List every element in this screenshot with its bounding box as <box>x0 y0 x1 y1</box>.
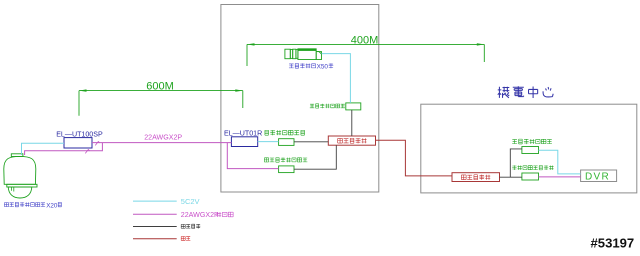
wire 5C2V indoor camera to top converter (cyan) <box>322 54 351 103</box>
converter box A2 影像光電轉換器 <box>522 147 539 154</box>
indoor box camera icon <box>285 49 322 60</box>
pair tick 1P on wire under EL-UT100SP <box>85 149 89 153</box>
fiber patch fiber box2 junction (dark) <box>500 149 522 177</box>
box EL-UT01R <box>231 137 257 147</box>
svg-text:DVR: DVR <box>585 172 610 183</box>
wire 22AWGX2P EL-UT100SP to EL-UT01R (magenta) <box>92 142 231 144</box>
label 戶外全罩式攝影機X20支 <box>4 202 61 209</box>
fiber cable between fiber boxes (red) <box>376 140 453 176</box>
wire 22AWGX2P dome camera control (magenta) <box>25 143 103 155</box>
wire 22AWGX2P branch to converter B1 (magenta) <box>227 143 278 169</box>
legend 光纖跳線 (dark) <box>133 226 177 228</box>
title text 機電中心 <box>498 87 510 98</box>
svg-text:EL—UT01R: EL—UT01R <box>224 129 262 137</box>
legend 光纜 (red) <box>133 238 177 240</box>
label 影像光電轉換器 (A2) <box>512 140 517 144</box>
pair tick 1P on wire at EL-UT100SP output <box>95 141 99 145</box>
fiber patch converter A1 to fiber box (dark) <box>294 141 328 143</box>
legend 5C2V (cyan) <box>133 200 177 202</box>
svg-text:22AWGX2P: 22AWGX2P <box>144 133 182 141</box>
dimension 400M right extension line <box>483 44 485 62</box>
wire 5C2V EL-UT01R to converter A1 (cyan) <box>258 141 279 143</box>
dimension 600M left extension line <box>78 91 80 116</box>
label 影像光電轉換器 (top) <box>310 104 314 108</box>
dimension 600M right extension line <box>242 91 244 108</box>
svg-text:X50: X50 <box>317 64 329 71</box>
label 室內攝影機X50支 <box>289 63 333 70</box>
wire converter B2 to DVR (magenta) <box>539 176 581 178</box>
dimension 400M left extension line <box>246 44 248 66</box>
converter box A1 影像光電轉換器 <box>279 139 294 146</box>
label 控制線光電轉換器 (B2) <box>512 165 516 170</box>
label 控制線光電轉換器 (B1) <box>264 158 268 162</box>
fiber termination box 光纖收容箱 (riser) <box>328 136 375 145</box>
dimension 400M line with arrows <box>247 43 484 45</box>
fiber termination box 光纖收容箱 (machine room) <box>452 173 500 182</box>
DVR box <box>581 170 617 182</box>
wire converter A2 to DVR (cyan) <box>539 150 581 174</box>
svg-text:5C2V: 5C2V <box>181 197 200 206</box>
machine room (機電中心) enclosure box <box>421 104 637 193</box>
wire 5C2V dome camera to EL-UT100SP (cyan) <box>22 143 65 155</box>
riser/corridor enclosure box <box>221 5 379 193</box>
converter box top (camera riser) <box>346 103 361 110</box>
dimension 600M line with arrows <box>79 90 243 92</box>
box EL-UT100SP <box>64 138 92 148</box>
fiber patch top converter to fiber box (dark) <box>351 110 353 136</box>
label 影像光電轉換器 (A1) <box>265 130 269 135</box>
svg-text:X20: X20 <box>46 202 58 209</box>
outdoor speed dome camera icon <box>4 154 37 198</box>
svg-text:#53197: #53197 <box>591 235 635 250</box>
fiber patch converter B1 to fiber box (dark) <box>294 145 336 169</box>
svg-text:22AWGX2P: 22AWGX2P <box>181 211 219 219</box>
converter box B1 控制線光電轉換器 <box>279 166 294 173</box>
converter box B2 控制線光電轉換器 <box>522 173 539 180</box>
legend 22AWGX2P控制線 (magenta) <box>133 213 177 215</box>
